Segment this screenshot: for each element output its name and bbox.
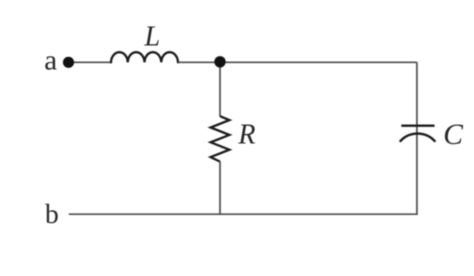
bottom rail wire node b to bottom-right corner [69, 213, 418, 215]
svg-text:L: L [144, 21, 161, 52]
wire node a to inductor [73, 61, 111, 63]
junction dot node [214, 56, 225, 67]
node a label [44, 45, 57, 77]
capacitor C top plate [401, 124, 434, 126]
resistor R zigzag [211, 116, 230, 161]
svg-text:C: C [443, 119, 463, 151]
inductor L [111, 52, 178, 62]
node b label [45, 198, 59, 229]
wire right branch vertical [416, 62, 418, 214]
wire inductor to junction [178, 61, 215, 63]
svg-text:b: b [45, 198, 59, 229]
wire resistor to bottom rail [219, 162, 221, 215]
wire junction down to resistor [219, 62, 221, 116]
label L [144, 21, 161, 52]
wire junction to top-right corner [220, 61, 417, 63]
svg-text:a: a [44, 45, 57, 77]
label C [443, 119, 463, 151]
terminal dot node a [63, 57, 74, 68]
capacitor C curved plate [400, 134, 434, 141]
label R [237, 120, 255, 151]
svg-text:R: R [237, 120, 255, 151]
